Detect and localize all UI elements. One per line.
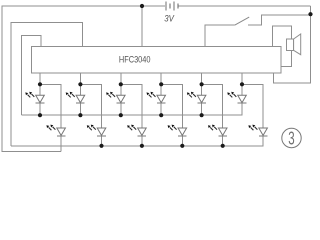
LED D5 triangle <box>117 95 126 102</box>
LED D8 cathode bar <box>178 135 187 137</box>
circled figure number 3 <box>282 128 301 149</box>
LED D9 cathode bar <box>197 102 206 104</box>
wire row-1 cathode bus <box>22 102 243 115</box>
svg-text:3: 3 <box>288 128 294 149</box>
switch S1 lever <box>235 17 250 25</box>
LED D1 emission arrows <box>25 92 34 98</box>
node junction col 2 top <box>78 82 82 86</box>
wire speaker top to IC top pin 5 <box>272 26 291 46</box>
LED D11 cathode bar <box>238 102 247 104</box>
LED D5 cathode bar <box>117 102 126 104</box>
wire IC pin column 4 down through row-1 LED to bus <box>160 73 162 115</box>
wire row-2 cathode bus <box>11 136 263 146</box>
LED D4 cathode bar <box>97 135 106 137</box>
LED D2 cathode bar <box>57 135 66 137</box>
svg-text:HFC3040: HFC3040 <box>119 54 151 64</box>
wire row-2 LED D10 cathode down <box>222 136 224 146</box>
wire right rail down to IC bottom-right pin <box>274 6 311 83</box>
LED D11 emission arrows <box>227 92 236 98</box>
node battery junction on rail <box>140 4 144 8</box>
node junction col 1 row-1 bus <box>38 113 42 117</box>
LED D2 triangle <box>57 128 66 135</box>
wire IC pin column 5 down through row-1 LED to bus <box>201 73 203 115</box>
wire IC pin column 3 down through row-1 LED to bus <box>120 73 122 115</box>
LED D1 triangle <box>36 95 45 102</box>
wire row-2 LED D12 cathode down <box>262 136 264 146</box>
LED D3 cathode bar <box>76 102 85 104</box>
LED D7 cathode bar <box>157 102 166 104</box>
wire top power rail left segment <box>2 6 165 152</box>
battery BT1 3V plates <box>166 2 178 11</box>
node junction col 1 top <box>38 82 42 86</box>
LED D6 triangle <box>138 128 147 135</box>
LED D6 emission arrows <box>127 125 136 131</box>
LED D7 emission arrows <box>147 92 156 98</box>
LED D12 triangle <box>259 128 268 135</box>
LED D5 emission arrows <box>106 92 115 98</box>
LED D8 triangle <box>178 128 187 135</box>
speaker LS1 <box>286 34 300 55</box>
IC U1 HFC3040 body <box>32 46 281 73</box>
node junction col 3 row-1 bus <box>119 113 123 117</box>
LED D8 emission arrows <box>168 125 177 131</box>
LED D9 triangle <box>197 95 206 102</box>
LED D6 cathode bar <box>138 135 147 137</box>
LED D11 triangle <box>238 95 247 102</box>
wire IC pin column 1 down through row-1 LED to bus <box>39 73 41 115</box>
LED D4 emission arrows <box>87 125 96 131</box>
node junction col 5 row-1 bus <box>200 113 204 117</box>
LED D7 triangle <box>157 95 166 102</box>
node junction col 4 top <box>159 82 163 86</box>
LED D10 triangle <box>218 128 227 135</box>
wire row-2 LED D4 cathode down <box>101 136 103 146</box>
node junction col 5 top <box>200 82 204 86</box>
wire IC pin column 6 down through row-1 LED to bus <box>241 73 243 115</box>
wire branch to row-2 LED D10 anode <box>202 84 223 128</box>
node switch branch junction on right rail <box>308 12 312 16</box>
LED D3 emission arrows <box>66 92 75 98</box>
LED D12 emission arrows <box>248 125 257 131</box>
LED D12 cathode bar <box>259 135 268 137</box>
node junction col 5 row-2 bus <box>221 144 225 148</box>
wire B: IC top pin 2 around left side to row-2 cathode bus <box>11 22 83 146</box>
wire switch left contact to IC top pin <box>205 25 235 46</box>
LED D10 cathode bar <box>218 135 227 137</box>
wire C: IC top pin 1 around left to row-1 cathode bus <box>22 36 42 116</box>
wire row-2 LED D8 cathode down <box>181 136 183 146</box>
wire row-2 LED D6 cathode down <box>141 136 143 146</box>
wire branch to row-2 LED D2 anode <box>40 84 61 128</box>
node junction col 2 row-1 bus <box>78 113 82 117</box>
wire branch to row-2 LED D8 anode <box>161 84 182 128</box>
LED D9 emission arrows <box>187 92 196 98</box>
node junction col 3 top <box>119 82 123 86</box>
wire row-2 LED D2 cathode down <box>60 136 62 152</box>
wire speaker bottom to IC right edge <box>281 50 292 66</box>
node junction col 3 row-2 bus <box>140 144 144 148</box>
wire branch to row-2 LED D12 anode <box>242 84 263 128</box>
LED D4 triangle <box>97 128 106 135</box>
LED D3 triangle <box>76 95 85 102</box>
node junction col 2 row-2 bus <box>99 144 103 148</box>
wire battery junction to IC top pin <box>141 6 143 46</box>
wire branch to row-2 LED D4 anode <box>80 84 101 128</box>
LED D2 emission arrows <box>46 125 55 131</box>
node junction col 4 row-1 bus <box>159 113 163 117</box>
wire branch to row-2 LED D6 anode <box>121 84 142 128</box>
node junction col 6 top <box>240 82 244 86</box>
LED D1 cathode bar <box>36 102 45 104</box>
svg-text:3V: 3V <box>164 14 174 24</box>
wire switch branch from rail junction <box>248 15 311 25</box>
wire top power rail right segment <box>179 5 311 7</box>
wire IC pin column 2 down through row-1 LED to bus <box>79 73 81 115</box>
node junction col 4 row-2 bus <box>180 144 184 148</box>
LED D10 emission arrows <box>208 125 217 131</box>
